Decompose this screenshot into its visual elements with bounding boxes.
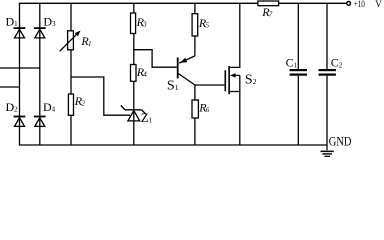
svg-text:+10: +10 bbox=[354, 0, 366, 9]
svg-text:GND: GND bbox=[329, 133, 352, 148]
svg-text:V: V bbox=[375, 0, 382, 9]
